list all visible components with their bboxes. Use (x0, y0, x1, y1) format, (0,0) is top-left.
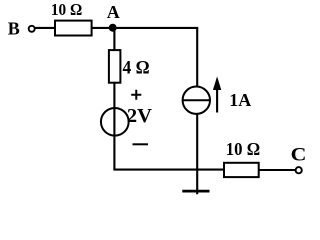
svg-text:10 Ω: 10 Ω (51, 1, 82, 19)
svg-text:4 Ω: 4 Ω (123, 57, 150, 78)
svg-text:10 Ω: 10 Ω (226, 140, 260, 160)
svg-text:2V: 2V (127, 105, 152, 127)
svg-text:1A: 1A (229, 90, 251, 110)
svg-text:B: B (8, 19, 20, 39)
svg-text:A: A (107, 2, 120, 22)
svg-text:C: C (291, 145, 307, 165)
